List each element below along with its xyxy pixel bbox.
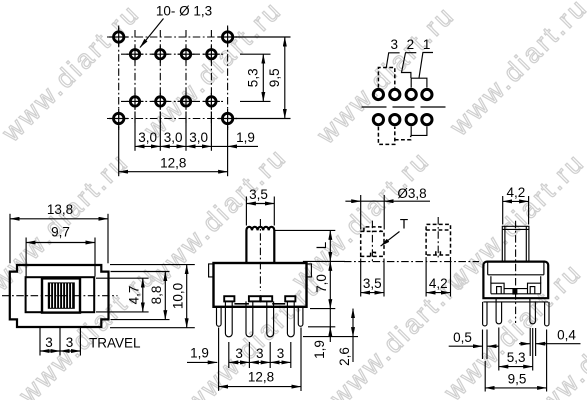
pin hole r2c2: [156, 97, 165, 106]
detail B inner top line: [426, 229, 450, 231]
slider knob frame: [42, 278, 80, 312]
dimension 8,8: [164, 272, 166, 320]
dimension 3,0 second: [160, 145, 186, 147]
drill pattern view (top-left): [107, 4, 291, 177]
extension lines pin columns: [135, 112, 211, 151]
terminal circle bottom 3: [406, 115, 416, 125]
svg-text:4,2: 4,2: [429, 276, 448, 291]
left ear: [209, 264, 214, 277]
leader pin 3: [386, 53, 399, 68]
centerline hole column 3: [185, 30, 187, 126]
dimension 4,2 top: [503, 200, 529, 202]
vertical centerline: [259, 219, 261, 291]
dimension 3,5 detail: [361, 292, 384, 294]
body outline with corner notches: [10, 265, 109, 327]
svg-text:3: 3: [256, 346, 264, 361]
svg-text:12,8: 12,8: [248, 369, 274, 384]
detail B bottom slot dashed: [436, 249, 441, 255]
dimension pin pitch 3 b: [249, 361, 270, 363]
body rectangle: [214, 263, 307, 307]
centerline inner row 2: [121, 100, 223, 102]
terminal circle top 3: [406, 89, 416, 99]
extension line actuator top right: [275, 229, 336, 231]
svg-text:3,0: 3,0: [189, 130, 208, 145]
svg-text:0,5: 0,5: [453, 330, 472, 345]
mounting hole bottom-right: [222, 113, 232, 123]
terminal circle top 1: [373, 89, 383, 99]
centerline corner row bottom: [107, 118, 239, 120]
pin hole r2c4: [207, 97, 216, 106]
terminal circle bottom 1: [373, 115, 383, 125]
svg-text:9,5: 9,5: [267, 68, 282, 87]
svg-text:www.diart.ru: www.diart.ru: [0, 146, 135, 296]
svg-text:2,6: 2,6: [337, 347, 352, 366]
mounting hole top-left: [114, 32, 124, 42]
dimension L: [329, 230, 331, 261]
extension lines 9,7: [26, 238, 95, 277]
terminal circle top 2: [390, 89, 400, 99]
pin 2: [246, 301, 253, 336]
contact cap 3: [261, 296, 272, 301]
svg-text:2: 2: [407, 37, 415, 52]
detail A vertical centerline: [371, 221, 373, 264]
dimension 7,0: [329, 261, 331, 308]
svg-text:5,3: 5,3: [507, 350, 526, 365]
svg-text:3,0: 3,0: [138, 130, 157, 145]
extension lines right heights: [96, 265, 195, 328]
svg-text:10,0: 10,0: [171, 283, 186, 309]
horizontal axis centerline: [344, 261, 479, 263]
svg-text:1,9: 1,9: [190, 346, 209, 361]
pin hole r2c3: [181, 97, 190, 106]
svg-text:3,5: 3,5: [249, 187, 268, 202]
actuator inner lines: [502, 226, 529, 261]
mounting leg left: [217, 307, 222, 327]
dimension 5,3: [499, 366, 533, 368]
pin hole r1c1: [130, 50, 139, 59]
svg-text:3: 3: [391, 37, 399, 52]
svg-text:9,5: 9,5: [508, 372, 527, 387]
centerline hole column 4: [210, 30, 212, 126]
pin hole r2c1: [130, 97, 139, 106]
side tab left: [483, 302, 487, 326]
leader pin 1: [419, 53, 433, 78]
contact base line: [491, 293, 541, 295]
detail A bottom slot dashed: [371, 252, 376, 256]
bottom dashed link: [395, 136, 411, 140]
leader T: [381, 232, 400, 247]
pin 3: [267, 301, 274, 336]
opening rectangle: [26, 277, 95, 312]
hole callout leader: [140, 19, 164, 48]
dimension 1,9 right: [329, 309, 331, 342]
centerline hole column 2: [159, 30, 161, 126]
extension line pin bottom right: [303, 336, 358, 338]
dimension 9,5: [485, 387, 546, 389]
svg-text:7,0: 7,0: [314, 274, 329, 293]
actuator sides: [502, 226, 529, 261]
mounting hole top-right: [222, 32, 232, 42]
dimension 9,5: [284, 37, 286, 119]
extension lines bottom: [219, 328, 301, 392]
dimension travel 3 right: [60, 350, 80, 352]
side view of switch (right): [449, 185, 581, 392]
svg-text:0,4: 0,4: [557, 328, 576, 343]
horizontal centerline: [2, 295, 118, 297]
dimension 3,0 third: [186, 145, 211, 147]
pin 4: [287, 301, 294, 336]
pin numbering schematic (top-right): [362, 37, 447, 145]
hole centerline crosses: [109, 28, 237, 129]
extension lines leg right: [530, 328, 535, 356]
pin hole r1c3: [181, 50, 190, 59]
svg-text:T: T: [400, 217, 408, 232]
top view of switch (bottom-left): [2, 202, 195, 356]
svg-text:3: 3: [277, 346, 285, 361]
contact block risers: [491, 276, 541, 283]
leader pin 2: [402, 53, 417, 78]
terminal circle bottom 2: [390, 115, 400, 125]
extension line leg bottom right: [308, 326, 335, 328]
pin hole r1c2: [156, 50, 165, 59]
contact cap 1: [224, 296, 234, 301]
svg-text:www.diart.ru: www.diart.ru: [12, 259, 162, 400]
svg-text:13,8: 13,8: [47, 202, 73, 217]
contact slot right: [530, 287, 535, 294]
contact slot left: [497, 287, 502, 294]
svg-text:3,0: 3,0: [164, 130, 183, 145]
centerline inner row 1: [121, 53, 223, 55]
contact center post: [512, 289, 517, 295]
dimension pin pitch 3 c: [270, 361, 291, 363]
bottom solid bracket: [411, 126, 427, 135]
dimension 2,6: [352, 309, 354, 337]
side tab right: [545, 302, 549, 326]
top dashed bracket pins 3-2: [378, 68, 394, 88]
extension lines 4,2 top: [503, 196, 529, 225]
terminal circle top 4: [422, 89, 432, 99]
actuator with serrated top: [246, 227, 274, 263]
extension lines travel: [40, 328, 80, 356]
extension lines 4,2 detail: [426, 257, 450, 297]
extension lines 9,5: [485, 330, 546, 392]
extension lines 3,5 detail: [361, 259, 384, 297]
svg-text:12,8: 12,8: [160, 156, 186, 171]
centerline corner row top: [107, 36, 239, 38]
dimension 12,8: [119, 171, 228, 173]
top solid bracket pins 2-1: [411, 78, 427, 87]
leg right side view: [530, 299, 536, 324]
extension lines tab left: [483, 330, 488, 360]
slider knob grip (hatched): [48, 282, 75, 308]
pin hole r1c4: [207, 50, 216, 59]
svg-text:1,9: 1,9: [236, 130, 255, 145]
pin 1: [225, 301, 232, 336]
bottom dashed bracket: [378, 127, 394, 145]
dimension 4,7: [142, 278, 144, 312]
vertical centerline side view: [515, 221, 517, 323]
front view of switch (bottom-middle): [187, 187, 358, 391]
svg-text:4,2: 4,2: [507, 185, 526, 200]
dimension 10,0: [186, 265, 188, 328]
contact cap 2: [249, 296, 260, 301]
extension lines diameter 3,8: [361, 195, 385, 230]
detail A outer dashed outline: [361, 231, 384, 256]
svg-text:www.diart.ru: www.diart.ru: [310, 0, 460, 150]
dimension 1,9 left: [187, 361, 217, 363]
dimension 13,8: [10, 218, 108, 220]
svg-text:www.diart.ru: www.diart.ru: [443, 0, 587, 142]
centerline corner column right: [227, 26, 229, 131]
dimension 9,7: [26, 242, 95, 244]
svg-text:Ø3,8: Ø3,8: [397, 186, 426, 201]
centerline corner column left: [118, 26, 120, 131]
svg-text:1,9: 1,9: [312, 340, 327, 359]
dimension pin pitch 3 a: [229, 361, 250, 363]
svg-text:1: 1: [423, 37, 431, 52]
svg-text:3,5: 3,5: [363, 276, 382, 291]
separator centerline: [362, 106, 447, 108]
right ear: [307, 264, 312, 277]
body outline rounded top: [483, 262, 548, 299]
contact block right: [528, 283, 541, 293]
inner frame lines: [488, 262, 544, 275]
svg-text:TRAVEL: TRAVEL: [89, 335, 141, 350]
svg-text:9,7: 9,7: [51, 225, 70, 240]
dimension 12,8 front: [219, 386, 301, 388]
extension lines 13,8: [10, 214, 108, 263]
svg-text:www.diart.ru: www.diart.ru: [0, 0, 146, 148]
dimension 3,0 first: [135, 145, 160, 147]
inner base line segments: [234, 303, 285, 305]
svg-text:3: 3: [235, 346, 243, 361]
extension line body bottom right: [310, 308, 335, 310]
svg-text:5,3: 5,3: [245, 68, 260, 87]
detail A top bump dashed: [364, 227, 381, 232]
dimension travel 3 left: [40, 350, 60, 352]
actuator detail views (middle-right): [344, 186, 479, 297]
base plate line: [483, 301, 548, 303]
extension lines corner columns: [119, 127, 228, 176]
detail B outer dashed outline: [426, 224, 450, 255]
svg-text:3: 3: [66, 335, 74, 350]
centerline hole column 1: [134, 30, 136, 126]
dimension diameter 3,8: [345, 200, 360, 202]
detail B vertical centerline: [437, 217, 439, 260]
dimension 0,5: [449, 345, 483, 347]
svg-text:4,7: 4,7: [127, 286, 142, 305]
extension line body top right: [303, 260, 345, 262]
svg-text:8,8: 8,8: [149, 286, 164, 305]
contact cap 4: [285, 296, 295, 301]
svg-text:L: L: [314, 241, 329, 249]
dimension 0,4: [519, 343, 530, 345]
leg left side view: [496, 299, 502, 324]
terminal circle bottom 4: [422, 115, 432, 125]
extension lines 5,3: [499, 328, 533, 371]
svg-text:10- Ø 1,3: 10- Ø 1,3: [156, 4, 212, 19]
svg-text:3: 3: [45, 335, 53, 350]
dimension 1,9: [211, 145, 227, 147]
extension lines rows right: [236, 37, 291, 119]
dimension 4,2 detail: [426, 292, 450, 294]
mounting leg right: [298, 307, 303, 327]
dimension 5,3: [262, 54, 264, 101]
contact middle bar: [504, 288, 527, 290]
dimension 3,5 actuator: [246, 203, 274, 205]
extension lines 3,5: [246, 197, 274, 226]
mounting hole bottom-left: [114, 113, 124, 123]
contact block left: [491, 283, 504, 293]
